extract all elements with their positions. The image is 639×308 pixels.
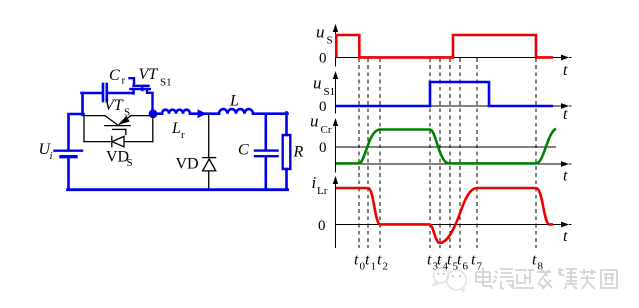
wire: VD branch lower [208,171,210,189]
waveform uCr (green) [336,129,556,164]
diode VD (points up, cathode bar on top) [203,158,216,171]
battery U_i short plate [61,155,76,158]
resistor R [283,135,291,169]
svg-text:S1: S1 [160,77,172,89]
node A (junction dot) [149,109,158,118]
dashed time marker t8 [535,58,537,248]
svg-text:t: t [563,228,568,245]
transistor VT_S (black IGBT-style symbol) [84,116,150,135]
dashed time marker t5 [449,58,451,248]
svg-text:t: t [532,252,537,269]
axis row1 arrowheads [561,55,572,61]
axis row4 iLr [336,183,562,248]
wire: L to output corner [253,112,288,115]
capacitor C bottom plate [255,155,278,157]
svg-text:VT: VT [139,66,159,83]
axis row2 uS1 [336,75,562,114]
wire: C branch lower [264,157,267,190]
svg-text:t: t [471,252,476,269]
dashed time marker t7 [476,58,478,248]
wire: bottom rail [68,188,288,191]
inductor L [219,109,253,114]
wire: VD branch upper [208,115,210,157]
svg-text:u: u [316,23,325,42]
svg-text:VD: VD [176,156,199,173]
wire: right branch lower [285,169,288,190]
mosfet VT_S1 body arrow [137,86,143,92]
svg-text:t: t [563,62,568,79]
time labels t0..t8 [354,252,544,273]
wire: VD_S cathode to right vertical [124,141,153,143]
wire: left riser to top branch [81,93,84,115]
current direction arrow on wire [198,109,207,118]
dashed time marker t6 [459,58,461,248]
dashed time marker t3 [429,58,431,248]
svg-text:t: t [437,252,442,269]
waveform iLr (red) [336,188,553,243]
wire: right vertical of VT_S loop (node to VD_S) [152,116,154,142]
svg-text:i: i [50,150,53,162]
wire: top branch to Cr [82,92,102,95]
watermark text (stylized CJK strokes) [476,268,617,289]
axis row4 arrowheads [561,222,572,228]
wire: C branch upper [264,114,267,150]
waveform uS1 (blue) [336,82,553,106]
svg-text:Lr: Lr [317,185,328,197]
svg-text:t: t [365,252,370,269]
svg-text:S: S [124,107,130,119]
wire: arrow to L [204,112,219,115]
transistor VT_S emitter arrow [118,116,130,125]
axis row2 arrowheads [561,103,572,109]
capacitor Cr right plate [106,84,109,101]
svg-text:r: r [181,129,185,141]
svg-text:0: 0 [319,140,327,156]
svg-text:0: 0 [318,218,326,234]
svg-text:2: 2 [383,261,389,273]
svg-text:S1: S1 [324,86,336,98]
dashed time marker t2 [379,58,381,248]
capacitor C top plate [255,149,278,151]
dashed time marker t0 [359,58,536,248]
svg-text:VT: VT [104,97,124,114]
waveform uS (red) [336,35,553,58]
diode VD_S (points left, cathode bar left) [112,136,124,146]
svg-text:Cr: Cr [321,124,332,136]
svg-text:7: 7 [477,261,483,273]
svg-text:1: 1 [371,261,377,273]
dashed time marker t1 [367,58,369,248]
axis row3 arrowheads [561,161,572,167]
svg-text:0: 0 [319,51,327,67]
svg-text:L: L [171,120,181,137]
battery U_i long plate [55,149,83,151]
svg-text:u: u [310,112,319,131]
axis row3 uCr (t-axis) [336,122,562,173]
svg-text:t: t [427,252,432,269]
svg-text:u: u [313,74,322,93]
svg-text:R: R [293,144,304,161]
capacitor Cr left plate [102,84,105,101]
svg-text:t: t [563,168,568,185]
svg-text:t: t [354,252,359,269]
svg-text:t: t [377,252,382,269]
axis row1 uS [336,28,562,67]
wire: battery top lead and horizontal to junction [69,114,84,150]
wire: VD_S anode side [84,141,112,143]
dashed time marker t4 [439,58,441,248]
wire: battery bottom lead [67,158,70,190]
mosfet VT_S1 [130,78,153,110]
svg-text:C: C [109,67,120,84]
svg-text:L: L [229,93,239,110]
svg-text:i: i [312,173,317,192]
wire: right branch upper [285,113,288,136]
watermark wechat logo [434,268,467,292]
svg-text:S: S [327,35,333,47]
svg-text:t: t [447,252,452,269]
svg-text:t: t [457,252,462,269]
axis row3 zero reference line [336,146,556,148]
svg-text:C: C [238,142,249,159]
inductor Lr [157,110,198,114]
svg-text:t: t [563,106,568,123]
wire: black loop left vertical [83,116,85,142]
svg-text:0: 0 [319,99,327,115]
svg-text:S: S [127,157,133,169]
svg-text:r: r [122,75,126,87]
svg-text:6: 6 [463,261,469,273]
wire: Cr to VT_S1 [109,92,134,95]
